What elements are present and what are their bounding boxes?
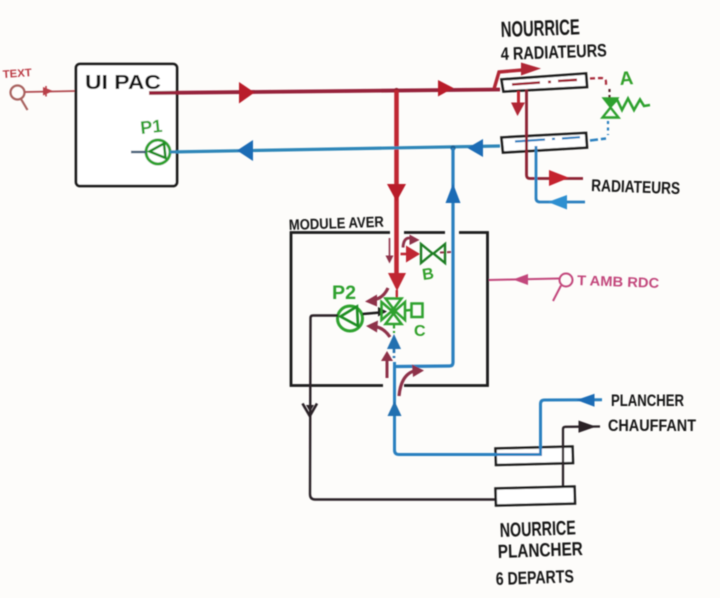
CHAUFFANT supply line	[563, 427, 600, 489]
sensor T-ext bulb	[11, 86, 28, 111]
wire supply red main	[149, 90, 500, 94]
svg-text:B: B	[421, 266, 435, 284]
arrowhead blue up into module	[388, 401, 402, 416]
valve A body	[603, 98, 618, 108]
thin maroon drop arrow left of red line	[389, 238, 391, 257]
radiator manifold upper	[502, 74, 588, 92]
valve B	[421, 244, 445, 263]
curved maroon arrow at module bottom	[399, 371, 414, 396]
black pipe from pump P2 left, down and out	[310, 316, 497, 500]
svg-text:NOURRICE: NOURRICE	[499, 517, 576, 542]
svg-text:P1: P1	[139, 116, 163, 138]
wire blue branch down to module	[396, 148, 453, 367]
svg-text:CHAUFFANT: CHAUFFANT	[608, 416, 697, 435]
pump P1	[146, 140, 170, 164]
maroon radiator supply line	[527, 89, 584, 179]
arrowhead return 2	[468, 139, 484, 157]
radiator manifold lower	[502, 133, 588, 153]
valve B dashed link to blue	[440, 251, 452, 254]
svg-text:TEXT: TEXT	[2, 67, 32, 81]
T AMB RDC bulb	[553, 274, 573, 302]
curved maroon arrow lower-left of valve C	[374, 327, 390, 338]
wire red branch down to module	[394, 90, 399, 277]
arrowhead red into valve C	[388, 273, 406, 291]
svg-text:4 RADIATEURS: 4 RADIATEURS	[500, 40, 607, 64]
arrowhead radiator return	[548, 195, 567, 210]
red dash-dot inside upper manifold	[512, 80, 577, 85]
wire return blue main	[170, 146, 500, 152]
arrowhead supply 1	[239, 82, 255, 104]
blue radiator return line	[536, 146, 585, 202]
blue pipe down to floor circuit	[395, 362, 603, 455]
UI PAC box	[76, 64, 177, 186]
curved maroon arrow upper-left of valve C	[372, 288, 388, 300]
svg-text:T AMB RDC: T AMB RDC	[577, 272, 660, 291]
svg-text:A: A	[619, 68, 634, 90]
valve A red dashed link from upper manifold	[590, 78, 606, 85]
curved maroon arrow near valve B	[403, 238, 410, 248]
arrowhead supply 2	[438, 80, 454, 97]
black stub pump P2 to valve C	[363, 313, 381, 315]
wire red from sensor to UI PAC	[25, 91, 76, 92]
svg-text:PLANCHER: PLANCHER	[497, 539, 583, 563]
svg-text:NOURRICE: NOURRICE	[500, 14, 580, 42]
pump P1 inlet stub	[131, 151, 146, 153]
svg-text:UI PAC: UI PAC	[85, 72, 161, 94]
arrowhead black down	[303, 404, 318, 417]
valve A spring	[611, 99, 650, 111]
junction knot blue	[450, 145, 455, 150]
valve A blue dashed link to lower manifold	[607, 121, 609, 135]
arrowhead blue branch up	[446, 184, 461, 204]
T AMB RDC pink line into module	[489, 279, 559, 281]
arrowhead radiator supply	[549, 170, 569, 186]
svg-text:P2: P2	[332, 283, 356, 304]
arrowhead pink left	[513, 274, 528, 285]
arrowhead blue left toward manifold (PLANCHER return)	[577, 394, 595, 407]
junction knot red	[394, 88, 399, 93]
svg-text:6 DEPARTS: 6 DEPARTS	[495, 566, 574, 589]
arrowhead return 1	[237, 140, 253, 161]
mixing valve C	[382, 299, 423, 325]
red over-top branch on radiator manifold	[494, 70, 528, 90]
blue dash-dot inside lower manifold	[515, 137, 580, 141]
svg-text:MODULE AVER: MODULE AVER	[289, 214, 385, 234]
blue arrow up below valve C	[387, 334, 401, 349]
floor manifold upper	[496, 447, 574, 466]
red drop arrow below upper manifold	[517, 91, 520, 104]
svg-text:C: C	[414, 323, 426, 340]
svg-text:RADIATEURS: RADIATEURS	[591, 176, 681, 198]
floor manifold lower	[496, 487, 576, 506]
green dashes below valve C	[393, 325, 395, 333]
maroon arrow up left of blue	[386, 360, 389, 378]
arrowhead red branch mid	[387, 184, 406, 202]
module box	[291, 233, 488, 386]
red arrow into valve B	[401, 253, 410, 256]
svg-text:PLANCHER: PLANCHER	[611, 391, 684, 410]
pump P2	[338, 306, 363, 331]
